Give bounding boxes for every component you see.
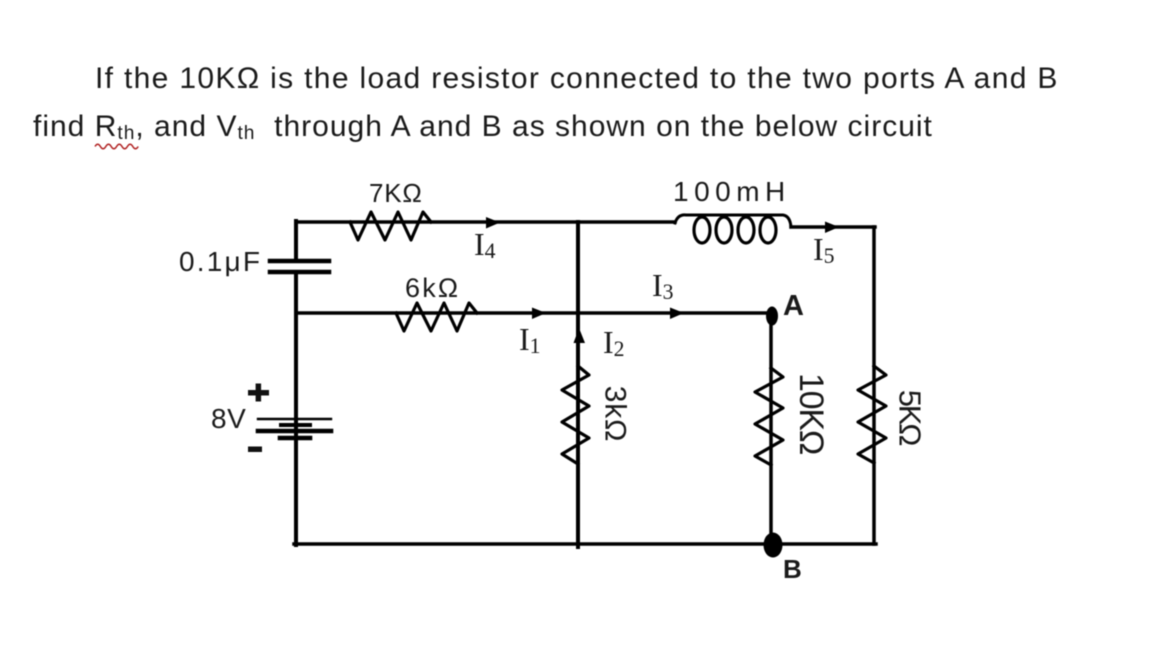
spellcheck squiggle under Rth bbox=[94, 141, 142, 150]
wire: branch A to B bbox=[769, 315, 773, 543]
problem text line 2 bbox=[33, 110, 933, 144]
wire: middle vertical branch (top rail to bottom rail) bbox=[576, 222, 580, 547]
label 7KOhm bbox=[369, 178, 423, 209]
capacitor C 0.1uF plates bbox=[270, 261, 329, 272]
arrow I1 on middle rail bbox=[532, 308, 546, 320]
wire: top rail left segment bbox=[296, 220, 675, 224]
arrow I2 upward on middle branch bbox=[574, 328, 586, 343]
label 8V bbox=[211, 403, 246, 435]
inductor L 100mH bbox=[675, 215, 791, 243]
resistor R 6k zigzag bbox=[396, 303, 477, 331]
label 100mH bbox=[673, 176, 791, 208]
wire: left vertical rail bbox=[294, 221, 298, 545]
label 3kOhm rotated bbox=[597, 386, 631, 443]
arrow I3 on middle rail bbox=[670, 308, 684, 320]
arrow I4 on top rail bbox=[486, 217, 500, 229]
resistor R 10K zigzag bbox=[755, 368, 783, 465]
wire: middle horizontal rail bbox=[296, 311, 771, 315]
label 5KOhm rotated bbox=[891, 390, 927, 445]
wire: top rail right segment after inductor bbox=[791, 225, 875, 229]
label current I3 bbox=[652, 267, 674, 304]
label node A bbox=[783, 290, 804, 323]
label 6kOhm bbox=[405, 273, 460, 304]
battery V 8V plates bbox=[258, 419, 331, 438]
problem text line 1 bbox=[95, 62, 1059, 96]
label battery minus bbox=[247, 446, 265, 454]
resistor R 5K zigzag bbox=[858, 366, 886, 463]
label node B bbox=[783, 554, 802, 585]
node A junction dot bbox=[766, 307, 778, 326]
wire: bottom rail bbox=[294, 542, 876, 546]
label current I1 bbox=[519, 321, 541, 358]
label current I4 bbox=[474, 226, 496, 263]
label current I2 bbox=[603, 324, 625, 361]
wire: right vertical rail bbox=[872, 227, 876, 544]
label 0.1uF bbox=[179, 246, 262, 278]
label 10KOhm rotated bbox=[791, 373, 830, 454]
node B junction dot bbox=[764, 533, 783, 558]
label battery plus bbox=[246, 383, 272, 403]
arrow I5 on top rail right bbox=[825, 222, 839, 234]
resistor R 7K zigzag bbox=[350, 212, 431, 240]
label current I5 bbox=[813, 231, 835, 268]
resistor R 3k zigzag bbox=[562, 366, 589, 464]
